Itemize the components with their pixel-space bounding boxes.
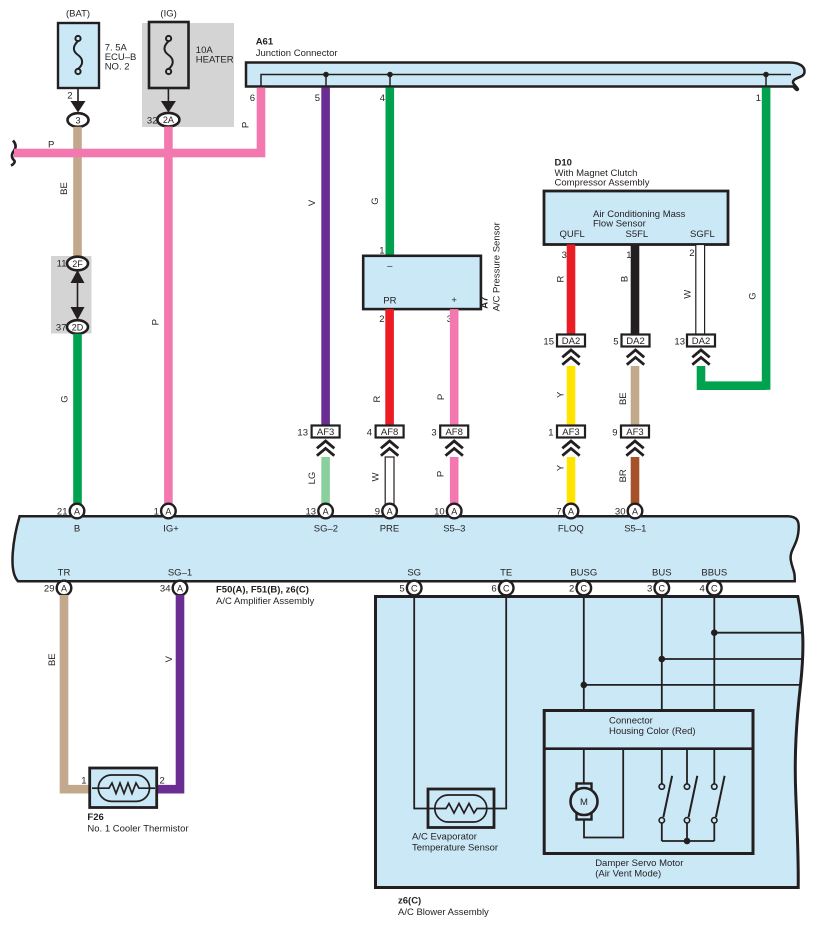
wire BE tan from 5 DA2 to 9 AF3 [631, 366, 640, 426]
svg-text:A: A [451, 506, 457, 516]
svg-text:V: V [164, 655, 175, 662]
pin number 13 [674, 336, 685, 347]
damper servo motor box [544, 711, 753, 854]
label 7.5A ECU-B NO.2 [105, 42, 137, 72]
svg-text:1: 1 [756, 93, 761, 104]
wire R red from A7 pin 2 [385, 309, 394, 425]
node pin 7 FLOQ [564, 504, 579, 519]
svg-text:11: 11 [57, 259, 67, 270]
chevron arrows below 3 AF8 [446, 441, 463, 456]
label BUSG [570, 567, 597, 578]
label A7 rotated [479, 297, 490, 309]
svg-text:2: 2 [569, 584, 574, 595]
svg-text:A: A [74, 506, 80, 516]
wire SG inside z6 [414, 596, 428, 809]
label A/C Evaporator Temperature Sensor [412, 831, 498, 853]
svg-text:F26: F26 [87, 812, 103, 823]
svg-text:C: C [581, 583, 588, 593]
svg-text:P: P [151, 319, 162, 325]
svg-text:+: + [451, 295, 457, 306]
svg-text:A: A [568, 506, 574, 516]
wire G green elbow from 13 DA2 chevron to right riser [701, 366, 766, 386]
connector box 9 AF3 [621, 426, 649, 439]
pin number 13 at AF3 [297, 427, 308, 438]
svg-text:2: 2 [160, 776, 165, 787]
pin number 5 [613, 336, 618, 347]
svg-text:HEATER: HEATER [196, 54, 234, 65]
switch 1 lead [661, 749, 663, 784]
label SG-1 [168, 567, 192, 578]
pin number 10 [434, 506, 445, 517]
A/C amplifier assembly band [12, 516, 798, 581]
svg-text:R: R [372, 395, 383, 402]
wire V purple from A61 pin 5 to 13 AF3 [321, 88, 330, 426]
label P rotated on IG wire [151, 319, 162, 325]
wire LG light green to pin 13 [321, 457, 330, 506]
node pin 5 SG [407, 581, 422, 596]
svg-text:1: 1 [548, 427, 553, 438]
svg-text:AF8: AF8 [381, 427, 398, 438]
svg-text:3: 3 [75, 115, 80, 125]
A61 inner bus line [261, 75, 791, 87]
svg-text:QUFL: QUFL [560, 229, 585, 240]
label IG+ [163, 523, 179, 534]
svg-text:4: 4 [700, 584, 705, 595]
svg-text:S5–1: S5–1 [624, 523, 646, 534]
svg-text:30: 30 [615, 506, 626, 517]
label (BAT) [66, 9, 90, 20]
svg-text:DA2: DA2 [562, 336, 580, 347]
label V rotated [307, 199, 318, 206]
pin number 2 at F26 [160, 776, 165, 787]
wire Y yellow to pin 7 [567, 457, 576, 506]
label W rotated [370, 472, 381, 481]
wire G green from 2D to pin 21 [73, 334, 82, 506]
svg-text:6: 6 [491, 584, 496, 595]
label minus inside A7 [387, 261, 393, 272]
svg-text:SGFL: SGFL [690, 229, 715, 240]
double-headed arrow between 2F and 2D [71, 270, 85, 320]
connector box 15 DA2 [557, 335, 585, 348]
connector ellipse 2A [157, 113, 179, 127]
chevron arrows below 1 AF3 [562, 441, 579, 456]
label F50(A), F51(B), z6(C) [216, 584, 309, 595]
label B rotated [620, 276, 631, 282]
label A/C Blower Assembly [398, 907, 489, 918]
svg-text:Junction Connector: Junction Connector [256, 48, 338, 59]
svg-text:13: 13 [674, 336, 685, 347]
chevron arrows below 13 AF3 [317, 441, 334, 456]
svg-text:1: 1 [81, 776, 86, 787]
label W rotated [683, 290, 694, 299]
op A7 A/C pressure sensor box [363, 256, 481, 309]
svg-text:P: P [48, 140, 54, 151]
svg-text:2F: 2F [72, 259, 83, 269]
label FLOQ [558, 523, 584, 534]
connector box 1 AF3 [557, 426, 585, 439]
svg-text:AF8: AF8 [445, 427, 462, 438]
svg-text:A/C Blower Assembly: A/C Blower Assembly [398, 907, 489, 918]
pin number 32 [147, 116, 158, 127]
junction dot A61 pin 4 [387, 72, 393, 87]
pin number 6 [250, 93, 255, 104]
svg-text:(Air Vent Mode): (Air Vent Mode) [595, 869, 661, 880]
label P rotated at pin 6 [241, 122, 252, 128]
pin number 3 [647, 584, 652, 595]
pin number 9 [375, 506, 380, 517]
svg-text:15: 15 [543, 336, 554, 347]
svg-text:10: 10 [434, 506, 445, 517]
label G rotated right side [748, 292, 759, 299]
svg-text:W: W [683, 290, 694, 299]
svg-text:G: G [59, 395, 70, 402]
label A61 [256, 36, 274, 47]
wire V purple from pin 34 to F26 pin 2 [157, 595, 181, 789]
svg-text:3: 3 [431, 427, 436, 438]
wire TE inside z6 [494, 596, 507, 809]
thermistor F26 box [90, 768, 157, 808]
svg-text:C: C [659, 583, 666, 593]
svg-text:SG: SG [407, 567, 421, 578]
node pin 29 TR [57, 581, 72, 596]
junction dot BUS [659, 656, 666, 663]
svg-text:BE: BE [59, 182, 70, 195]
label BE rotated [47, 653, 58, 666]
node pin 10 S5-3 [447, 504, 462, 519]
svg-text:G: G [370, 197, 381, 204]
wire BE tan from pin 29 to F26 pin 1 [64, 595, 90, 789]
pin number 21 [57, 506, 68, 517]
svg-text:1: 1 [154, 506, 159, 517]
svg-text:A: A [387, 506, 393, 516]
svg-text:TE: TE [500, 567, 512, 578]
label R rotated [372, 395, 383, 402]
pin number 1 at AF3 [548, 427, 553, 438]
svg-text:Housing Color (Red): Housing Color (Red) [609, 726, 696, 737]
label Y rotated [555, 391, 566, 398]
svg-text:W: W [370, 472, 381, 481]
pin number 2 [569, 584, 574, 595]
label P rotated [436, 394, 447, 400]
wire G green from A61 pin 1 down right side [762, 88, 771, 390]
label SG-2 [314, 523, 338, 534]
wire BUS branch to right edge [662, 658, 802, 660]
svg-text:4: 4 [367, 427, 372, 438]
label V rotated [164, 655, 175, 662]
wire Y yellow from 15 DA2 to 1 AF3 [567, 366, 576, 426]
junction dot A61 pin 1 [763, 72, 769, 87]
label 10A HEATER [196, 45, 234, 66]
svg-text:A: A [61, 583, 67, 593]
gray background box for (IG) heater fuse [142, 23, 234, 127]
wire BBUS branch to right edge [714, 632, 803, 634]
svg-text:A61: A61 [256, 36, 274, 47]
svg-text:2: 2 [379, 314, 384, 325]
node pin 4 BBUS [707, 581, 722, 596]
svg-text:37: 37 [56, 322, 67, 333]
svg-text:3: 3 [562, 250, 567, 261]
label BBUS [701, 567, 727, 578]
svg-text:5: 5 [613, 336, 618, 347]
junction dot BUSG [581, 682, 588, 689]
pin number 30 [615, 506, 626, 517]
label SG [407, 567, 421, 578]
svg-text:32: 32 [147, 116, 158, 127]
label D10 [555, 157, 572, 168]
svg-text:Flow Sensor: Flow Sensor [593, 218, 646, 229]
label LG rotated [307, 472, 318, 485]
node pin 13 SG-2 [318, 504, 333, 519]
svg-text:AF3: AF3 [562, 427, 579, 438]
connector box 13 AF3 [312, 426, 340, 439]
junction dot A61 pin 5 [323, 72, 329, 87]
svg-text:TR: TR [58, 567, 71, 578]
wire P pink vertical from 2A down to IG+ [164, 127, 173, 512]
pin number 1 [154, 506, 159, 517]
pin number 9 at AF3 [612, 427, 617, 438]
chevron arrows below 9 AF3 [626, 441, 643, 456]
label No. 1 Cooler Thermistor [87, 823, 188, 834]
svg-text:BUSG: BUSG [570, 567, 597, 578]
chevron arrows below 5 DA2 [627, 350, 644, 365]
connector box 3 AF8 [440, 426, 468, 439]
thermistor F26 lead-through [92, 787, 155, 789]
pin number 11 [57, 259, 67, 270]
switch 2 [684, 776, 697, 841]
label G rotated [59, 395, 70, 402]
svg-text:–: – [387, 261, 393, 272]
wire BBUS inside z6 [713, 596, 715, 711]
svg-text:IG+: IG+ [163, 523, 179, 534]
svg-text:z6(C): z6(C) [398, 895, 421, 906]
fuse (IG) symbol [164, 36, 172, 74]
wire G green from A61 pin 4 to A7 [386, 88, 395, 256]
node pin 1 IG+ [161, 504, 176, 519]
label R rotated [555, 275, 566, 282]
svg-text:NO. 2: NO. 2 [105, 62, 130, 73]
node pin 21 B [70, 504, 85, 519]
svg-text:A/C Pressure Sensor: A/C Pressure Sensor [491, 222, 502, 311]
svg-text:V: V [307, 199, 318, 206]
svg-text:B: B [620, 276, 631, 282]
wire BR brown to pin 30 [631, 457, 640, 506]
node pin 2 BUSG [577, 581, 592, 596]
switch 3 lead [713, 749, 715, 784]
svg-text:2D: 2D [72, 322, 84, 332]
junction dot switch common [684, 838, 691, 845]
svg-text:C: C [711, 583, 718, 593]
label PR inside A7 [383, 296, 396, 307]
evaporator sensor stadium outline [435, 795, 487, 822]
svg-text:A: A [177, 583, 183, 593]
wire to motor [583, 749, 585, 784]
pin number 6 [491, 584, 496, 595]
pin number 3 below QUFL [562, 250, 567, 261]
switch 1 [659, 776, 672, 841]
svg-text:9: 9 [612, 427, 617, 438]
label With Magnet Clutch [555, 168, 638, 179]
svg-text:AF3: AF3 [317, 427, 334, 438]
pin number 5 [315, 93, 320, 104]
svg-text:BR: BR [618, 469, 629, 482]
pin number 1 below S5FL [626, 250, 631, 261]
connector box 4 AF8 [376, 426, 404, 439]
label S5-1 [624, 523, 646, 534]
label BE rotated [618, 392, 629, 405]
svg-text:2: 2 [689, 248, 694, 259]
chevron arrows below 4 AF8 [381, 441, 398, 456]
fuse (BAT) 7.5A ECU-B NO.2 box [58, 23, 99, 88]
svg-text:FLOQ: FLOQ [558, 523, 584, 534]
pin number 15 [543, 336, 554, 347]
wire P pink to pin 10 [450, 457, 459, 506]
wire W white to pin 9 [385, 457, 394, 506]
svg-text:M: M [580, 797, 588, 808]
label P rotated [436, 471, 447, 477]
wire BUSG branch to right edge [584, 684, 801, 686]
label S5FL [626, 229, 649, 240]
svg-text:Y: Y [555, 464, 566, 471]
svg-text:Y: Y [555, 391, 566, 398]
svg-text:Damper Servo Motor: Damper Servo Motor [595, 858, 683, 869]
svg-text:SG–1: SG–1 [168, 567, 192, 578]
node pin 30 S5-1 [628, 504, 643, 519]
svg-text:9: 9 [375, 506, 380, 517]
node pin 3 BUS [655, 581, 670, 596]
svg-text:6: 6 [250, 93, 255, 104]
pin number 4 [700, 584, 705, 595]
label Compressor Assembly [555, 178, 650, 189]
svg-text:DA2: DA2 [692, 336, 710, 347]
connector box 13 DA2 [687, 335, 715, 348]
svg-text:SG–2: SG–2 [314, 523, 338, 534]
svg-text:34: 34 [160, 584, 171, 595]
svg-text:Connector: Connector [609, 715, 653, 726]
wire switch common bus [662, 840, 715, 842]
label SGFL [690, 229, 715, 240]
svg-text:13: 13 [297, 427, 308, 438]
svg-text:DA2: DA2 [626, 336, 644, 347]
node pin 34 SG-1 [173, 581, 188, 596]
fuse (BAT) symbol [74, 36, 82, 74]
label S5-3 [443, 523, 465, 534]
pin number 3 below A7 [447, 314, 452, 325]
wire R red from D10 QUFL [567, 245, 576, 335]
label BUS [652, 567, 672, 578]
sensor A/C evaporator temperature sensor box [428, 789, 494, 828]
svg-text:29: 29 [44, 584, 55, 595]
wire motor return [584, 749, 623, 838]
pin number 2 below A7 [379, 314, 384, 325]
svg-text:C: C [503, 583, 510, 593]
pin number 5 [399, 584, 404, 595]
svg-text:(IG): (IG) [160, 9, 176, 20]
svg-text:3: 3 [647, 584, 652, 595]
lead with arrow from BAT fuse to connector 3 [71, 88, 86, 113]
label BE rotated [59, 182, 70, 195]
switch 2 lead [686, 749, 688, 784]
pin number 7 [556, 506, 561, 517]
thermistor F26 stadium outline [98, 775, 149, 801]
svg-text:P: P [436, 394, 447, 400]
pin number 3 at AF8 [431, 427, 436, 438]
svg-text:No. 1 Cooler Thermistor: No. 1 Cooler Thermistor [87, 823, 188, 834]
thermistor F26 zigzag element [98, 783, 149, 794]
svg-text:AF3: AF3 [626, 427, 643, 438]
svg-text:(BAT): (BAT) [66, 9, 90, 20]
label Y rotated [555, 464, 566, 471]
svg-text:G: G [748, 292, 759, 299]
label Air Conditioning Mass Flow Sensor [593, 209, 686, 230]
sensor D10 air conditioning mass flow sensor box [544, 191, 728, 245]
motor M damper servo [571, 784, 598, 820]
svg-text:5: 5 [315, 93, 320, 104]
pin number 2 [67, 91, 72, 102]
svg-text:BE: BE [47, 653, 58, 666]
connector ellipse 2D [67, 320, 88, 334]
connector housing divider [544, 747, 753, 750]
svg-text:LG: LG [307, 472, 318, 485]
label QUFL [560, 229, 585, 240]
svg-text:P: P [241, 122, 252, 128]
switch 3 [712, 776, 725, 841]
pin number 37 [56, 322, 67, 333]
wire BE tan from connector 3 to 2F [73, 127, 82, 258]
svg-text:A: A [165, 506, 171, 516]
label F26 [87, 812, 103, 823]
evaporator sensor lead-through [429, 808, 493, 810]
svg-text:13: 13 [306, 506, 317, 517]
junction connector A61 bar [246, 63, 805, 90]
label plus inside A7 [451, 295, 457, 306]
svg-text:A: A [323, 506, 329, 516]
svg-text:A: A [632, 506, 638, 516]
label A/C Pressure Sensor rotated [491, 222, 502, 311]
svg-text:D10: D10 [555, 157, 572, 168]
chevron arrows below 15 DA2 [562, 350, 579, 365]
svg-text:BE: BE [618, 392, 629, 405]
label B [74, 523, 80, 534]
continuation squiggle left of pink wire [11, 141, 16, 166]
label PRE [380, 523, 400, 534]
svg-text:BBUS: BBUS [701, 567, 727, 578]
wire W white from D10 SGFL [696, 245, 705, 335]
lead with arrow from IG fuse to connector 2A [161, 88, 176, 113]
svg-text:F50(A), F51(B), z6(C): F50(A), F51(B), z6(C) [216, 584, 309, 595]
label TR [58, 567, 71, 578]
svg-text:A7: A7 [479, 297, 490, 309]
label G rotated [370, 197, 381, 204]
svg-text:Compressor Assembly: Compressor Assembly [555, 178, 650, 189]
svg-text:R: R [555, 275, 566, 282]
evaporator sensor zigzag element [435, 804, 487, 814]
wire P pink from A7 pin 3 [450, 309, 459, 425]
svg-text:Temperature Sensor: Temperature Sensor [412, 842, 498, 853]
label (IG) [160, 9, 176, 20]
pin number 1 [756, 93, 761, 104]
junction dot BBUS [711, 629, 718, 636]
label Connector Housing Color (Red) [609, 715, 696, 737]
wire BUSG inside z6 [583, 596, 585, 711]
label BR rotated [618, 469, 629, 482]
svg-text:7: 7 [556, 506, 561, 517]
label z6(C) [398, 895, 421, 906]
pin number 29 [44, 584, 55, 595]
pin number 4 [380, 93, 385, 104]
label A/C Amplifier Assembly [216, 596, 314, 607]
label P horizontal wire [48, 140, 54, 151]
connector box 5 DA2 [622, 335, 650, 348]
